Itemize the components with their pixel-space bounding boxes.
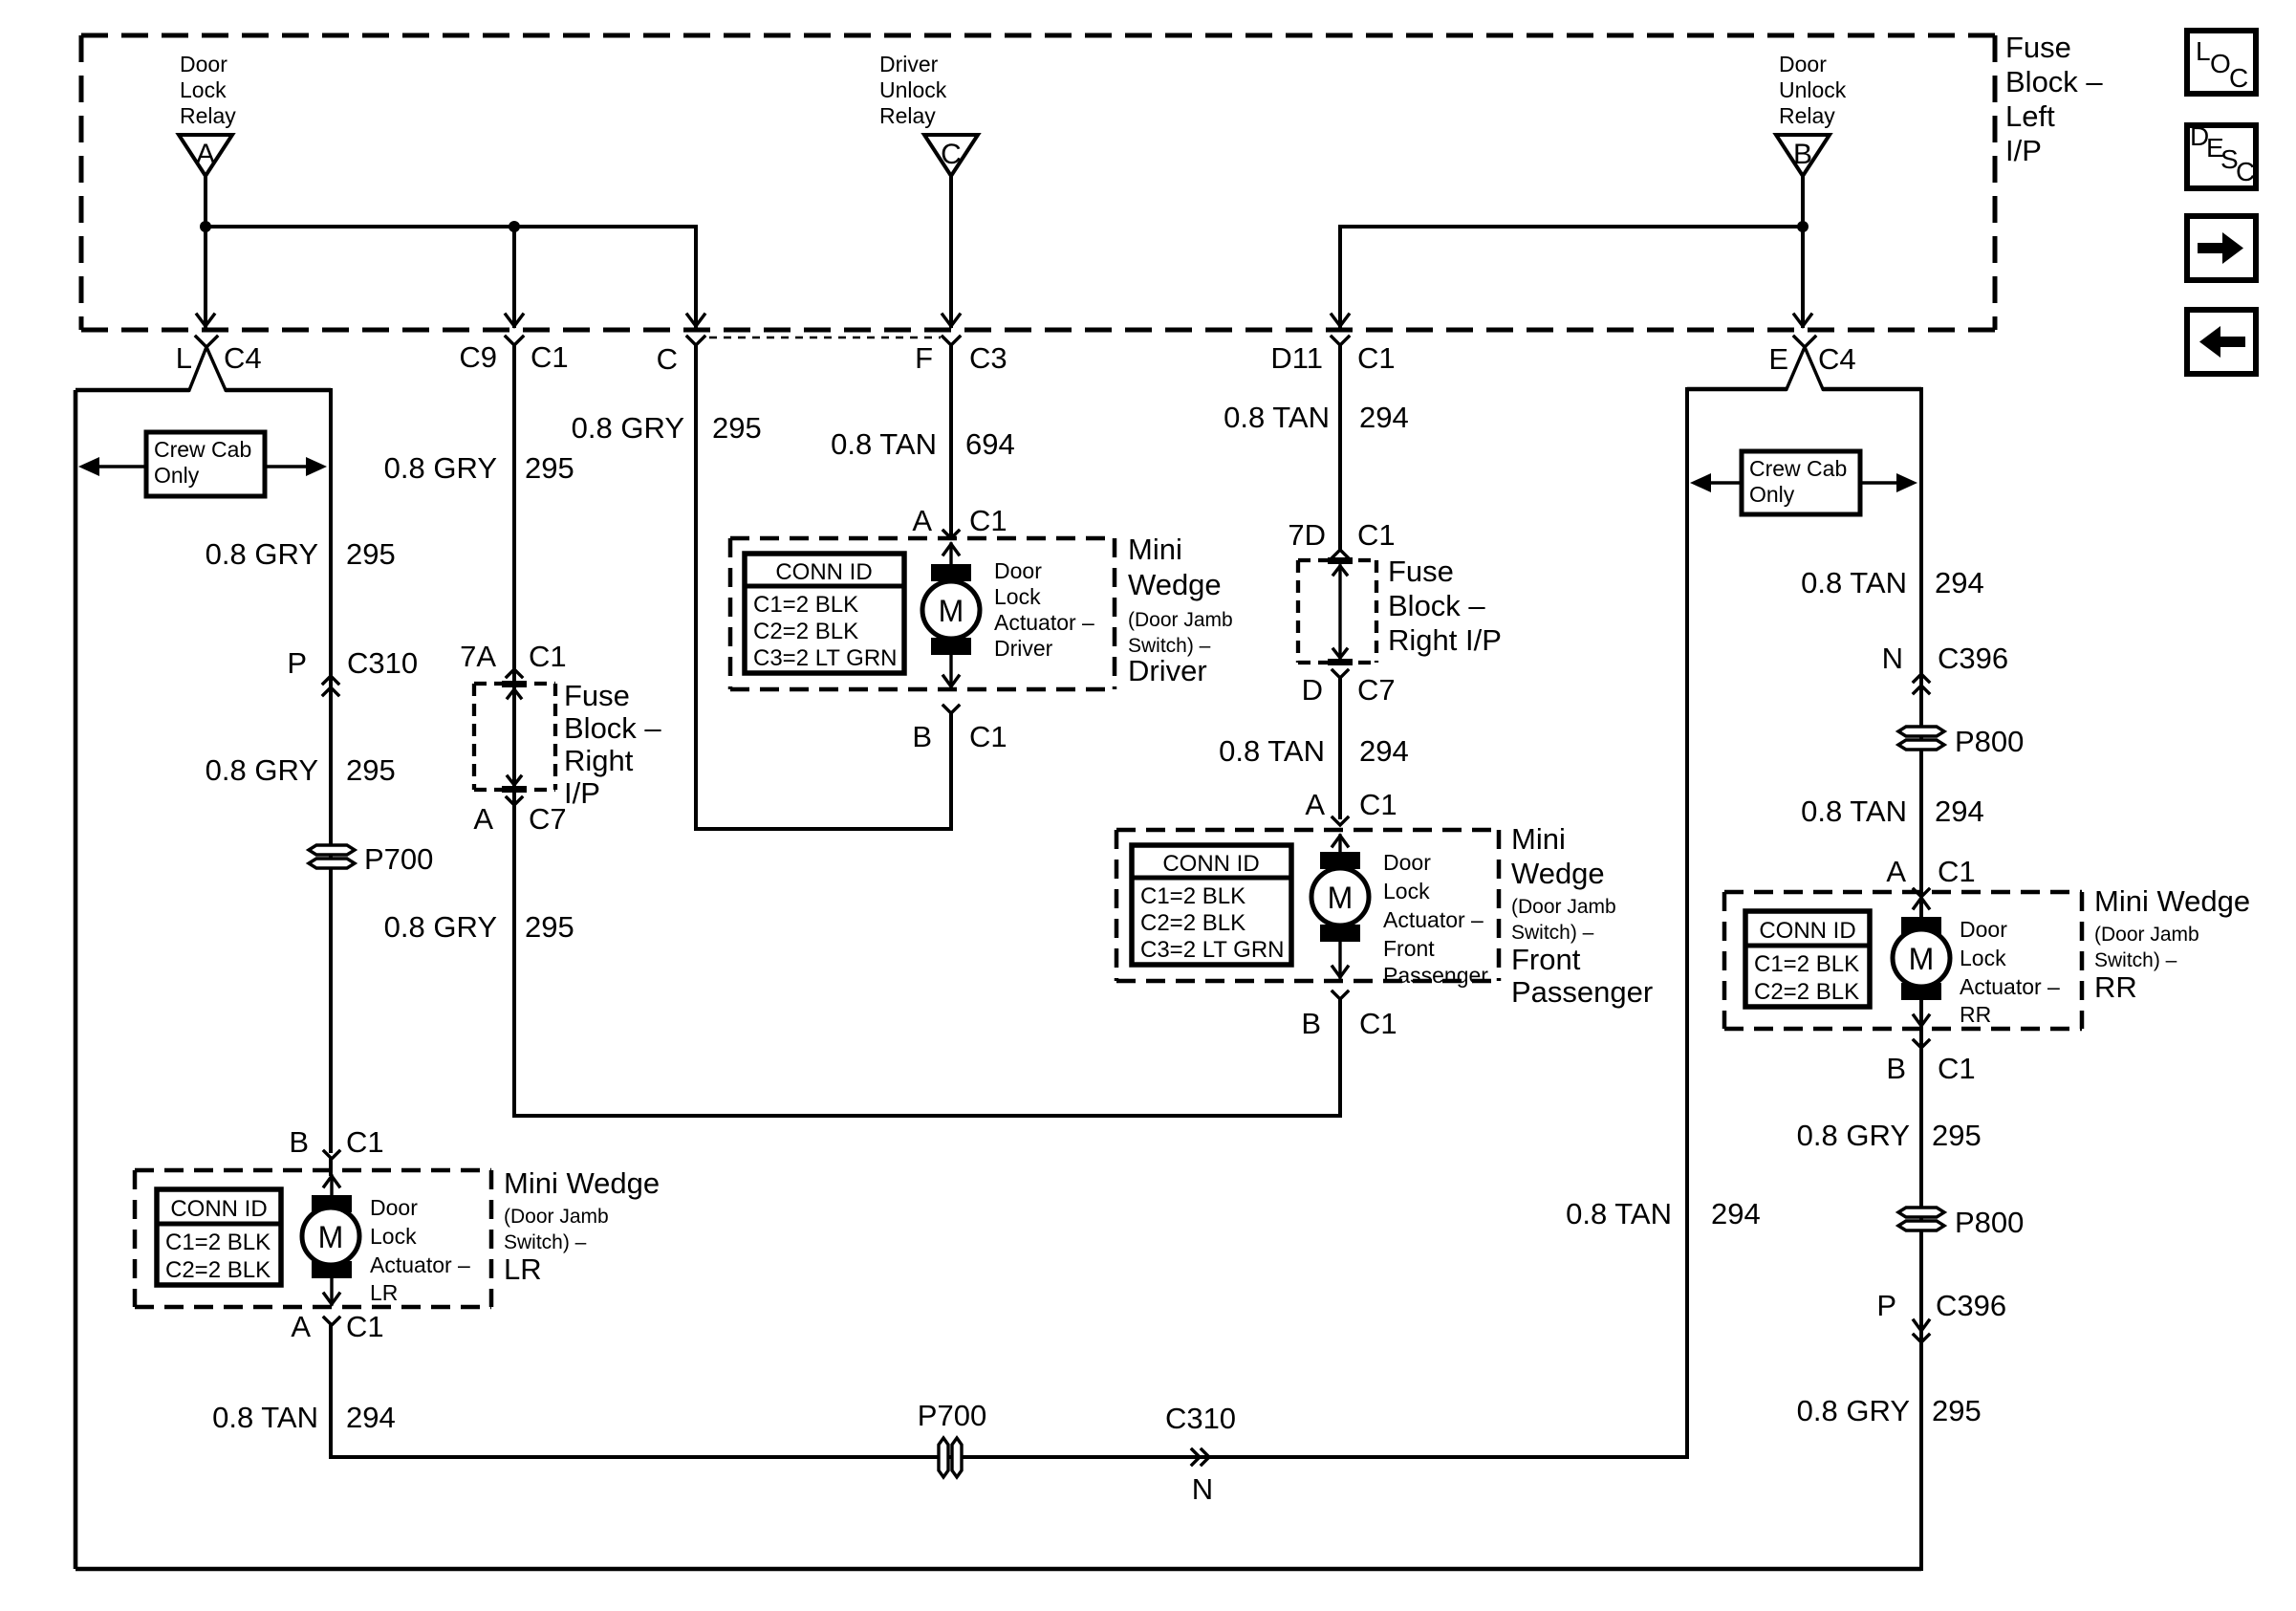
svg-text:A: A <box>196 139 215 170</box>
svg-text:Right I/P: Right I/P <box>1388 623 1502 657</box>
svg-text:LR: LR <box>370 1280 398 1305</box>
svg-text:P700: P700 <box>364 842 433 876</box>
svg-text:Unlock: Unlock <box>879 77 947 102</box>
relay A (door lock relay) triangle <box>179 135 232 176</box>
wire right edge of right loop <box>1919 389 1923 1569</box>
icon box back arrow <box>2187 310 2256 374</box>
svg-text:N: N <box>1882 642 1903 675</box>
svg-text:C1=2 BLK: C1=2 BLK <box>1754 951 1859 977</box>
crew cab arrow left (right box) <box>1690 473 1742 492</box>
wire label 0.8 GRY 295 (C9 branch) <box>384 451 574 485</box>
svg-text:Door: Door <box>180 52 227 76</box>
wire driver feed down <box>949 345 953 535</box>
svg-text:Front: Front <box>1383 936 1435 961</box>
arrowhead at F <box>942 315 960 326</box>
wire label 0.8 TAN 294 (LR return) <box>1566 1197 1761 1230</box>
svg-text:(Door Jamb: (Door Jamb <box>1128 609 1233 631</box>
svg-text:CONN ID: CONN ID <box>1162 851 1259 877</box>
crew cab only box (right) <box>1742 451 1860 514</box>
fuse terminal bar top <box>1328 557 1353 564</box>
fuse feed arrow up <box>508 689 521 698</box>
svg-text:I/P: I/P <box>2005 134 2042 167</box>
svg-text:C3=2 LT GRN: C3=2 LT GRN <box>753 645 898 671</box>
wire C drop <box>694 227 698 326</box>
label Door Lock Actuator - Front Passenger <box>1383 850 1488 988</box>
svg-text:Unlock: Unlock <box>1779 77 1847 102</box>
relay C (driver unlock relay) triangle <box>924 135 978 176</box>
svg-text:0.8 GRY: 0.8 GRY <box>206 753 318 787</box>
icon box LOC <box>2187 31 2256 94</box>
wire <box>1823 387 1921 392</box>
wire label 0.8 TAN 294 (RR mid) <box>1801 795 1984 828</box>
svg-text:L: L <box>2196 36 2211 66</box>
CONN ID table LR <box>157 1189 281 1285</box>
svg-text:0.8 TAN: 0.8 TAN <box>1224 401 1330 434</box>
wire label 0.8 GRY 295 (RR lower) <box>1797 1119 1982 1152</box>
wire label 0.8 TAN 694 <box>831 427 1015 461</box>
svg-text:Mini: Mini <box>1511 822 1566 856</box>
svg-text:B: B <box>289 1125 309 1159</box>
svg-text:Lock: Lock <box>1383 879 1430 903</box>
svg-text:Crew Cab: Crew Cab <box>154 437 251 462</box>
wire: horizontal bus A to C-drop <box>206 225 696 229</box>
wire label 0.8 TAN 294 (RR top) <box>1801 566 1984 599</box>
wire: horizontal bus B to D11-drop <box>1340 225 1803 229</box>
motor arrow up (LR) <box>324 1176 339 1197</box>
connector A/C1 (front passenger) <box>1305 788 1397 825</box>
right crew-cab loop box top edge <box>1687 387 1787 392</box>
icon box forward arrow <box>2187 216 2256 280</box>
svg-text:(Door Jamb: (Door Jamb <box>1511 896 1616 918</box>
wire LR A down <box>329 1325 333 1457</box>
svg-text:C396: C396 <box>1938 642 2008 675</box>
svg-text:Relay: Relay <box>879 103 936 128</box>
svg-text:Relay: Relay <box>1779 103 1835 128</box>
svg-text:294: 294 <box>1935 566 1984 599</box>
wire label 0.8 GRY 295 <box>206 753 396 787</box>
svg-text:295: 295 <box>1932 1394 1982 1427</box>
connector A/C1 (RR) <box>1886 855 1975 897</box>
arrowhead at L <box>197 315 214 326</box>
svg-text:Only: Only <box>154 463 200 488</box>
splice P800 (lower) <box>1898 1206 2024 1239</box>
svg-text:0.8 TAN: 0.8 TAN <box>1801 566 1907 599</box>
crew cab arrow right (right box) <box>1860 473 1917 492</box>
wire label 0.8 GRY 295 <box>206 537 396 571</box>
fuse feed arrow down <box>1333 649 1347 658</box>
svg-text:C1: C1 <box>1938 855 1976 888</box>
svg-text:7A: 7A <box>460 640 496 673</box>
svg-text:P800: P800 <box>1955 1206 2024 1239</box>
svg-text:Switch) –: Switch) – <box>1511 922 1594 944</box>
svg-text:294: 294 <box>1359 401 1409 434</box>
label Fuse Block - Left I/P <box>2005 31 2103 167</box>
svg-text:295: 295 <box>525 451 574 485</box>
svg-text:0.8 TAN: 0.8 TAN <box>831 427 937 461</box>
connector B/C1 (LR) <box>289 1125 383 1159</box>
svg-text:Fuse: Fuse <box>2005 31 2071 64</box>
connector A/C1 (LR) <box>291 1310 383 1343</box>
arrowhead at C <box>687 315 704 326</box>
svg-text:I/P: I/P <box>564 776 600 810</box>
fuse block - left I/P dashed outline <box>81 35 1995 330</box>
svg-text:CONN ID: CONN ID <box>170 1196 267 1222</box>
svg-text:0.8 TAN: 0.8 TAN <box>212 1401 318 1434</box>
svg-text:Block –: Block – <box>564 711 661 745</box>
connector A/C7 <box>473 797 566 836</box>
svg-text:Passenger: Passenger <box>1383 963 1488 988</box>
svg-text:C4: C4 <box>1818 342 1856 376</box>
svg-text:C3=2 LT GRN: C3=2 LT GRN <box>1140 937 1285 963</box>
svg-text:C2=2 BLK: C2=2 BLK <box>1754 979 1859 1005</box>
svg-text:C396: C396 <box>1936 1289 2006 1322</box>
connector C310/N <box>1165 1402 1236 1506</box>
connector A/C1 (driver) <box>912 504 1007 538</box>
svg-text:0.8 TAN: 0.8 TAN <box>1219 734 1325 768</box>
wire label 0.8 TAN 294 (upper passenger) <box>1224 401 1409 434</box>
wire passenger mid <box>1338 678 1342 817</box>
svg-text:295: 295 <box>712 411 762 445</box>
mini wedge RR dashed box <box>1724 892 2082 1029</box>
wire D11 drop <box>1338 227 1342 326</box>
svg-text:A: A <box>1305 788 1325 821</box>
label Fuse Block - Right I/P <box>564 679 661 810</box>
connector 7D/C1 <box>1288 518 1395 557</box>
svg-text:Switch) –: Switch) – <box>2094 949 2177 971</box>
label Mini Wedge (Door Jamb Switch) - Front Passenger <box>1511 822 1653 1009</box>
svg-text:C1=2 BLK: C1=2 BLK <box>753 592 858 618</box>
svg-text:Fuse: Fuse <box>1388 555 1454 588</box>
svg-text:C9: C9 <box>459 340 497 374</box>
svg-text:294: 294 <box>1711 1197 1761 1230</box>
svg-text:C: C <box>2236 157 2255 186</box>
svg-text:B: B <box>912 720 932 753</box>
svg-text:294: 294 <box>346 1401 396 1434</box>
svg-text:Fuse: Fuse <box>564 679 630 712</box>
svg-text:F: F <box>915 341 933 375</box>
connector D11/C1 <box>1270 337 1395 375</box>
svg-text:C7: C7 <box>529 802 567 836</box>
connector N/C396 <box>1882 642 2009 693</box>
svg-text:C7: C7 <box>1357 673 1396 707</box>
wire relay B down <box>1801 176 1805 326</box>
icon box DESC <box>2187 121 2256 188</box>
fuse feed arrow down <box>508 776 521 785</box>
door lock actuator LR motor <box>302 1195 359 1278</box>
svg-text:A: A <box>291 1310 311 1343</box>
svg-text:C3: C3 <box>969 341 1007 375</box>
svg-text:RR: RR <box>2094 970 2137 1004</box>
CONN ID table driver <box>745 554 904 673</box>
svg-text:C1: C1 <box>1359 1007 1397 1040</box>
relay B (door unlock relay) triangle <box>1776 135 1830 176</box>
connector 7A/C1 <box>460 640 567 677</box>
label Door Lock Actuator - RR <box>1960 917 2060 1027</box>
svg-text:RR: RR <box>1960 1002 1991 1027</box>
svg-text:694: 694 <box>965 427 1015 461</box>
label Mini Wedge (Door Jamb Switch) - Driver <box>1128 533 1233 687</box>
svg-text:295: 295 <box>346 753 396 787</box>
wire label 0.8 GRY 295 (lower C9) <box>384 910 574 944</box>
svg-text:O: O <box>2210 49 2231 78</box>
svg-text:Actuator –: Actuator – <box>994 610 1094 635</box>
svg-text:295: 295 <box>346 537 396 571</box>
svg-text:0.8 TAN: 0.8 TAN <box>1566 1197 1672 1230</box>
motor arrow down (FP) <box>1332 942 1348 977</box>
svg-text:C1: C1 <box>1357 518 1396 552</box>
bottom crew-cab return wire <box>76 1567 1921 1572</box>
svg-text:(Door Jamb: (Door Jamb <box>504 1206 609 1228</box>
wire <box>694 345 698 829</box>
connector L/C4 X-symbol <box>176 337 262 390</box>
wire label 0.8 GRY 295 (C branch) <box>572 411 762 445</box>
svg-text:M: M <box>939 594 964 628</box>
svg-text:Door: Door <box>1960 917 2007 942</box>
crew cab only box (left) <box>146 432 265 496</box>
svg-text:Switch) –: Switch) – <box>504 1231 587 1253</box>
svg-text:(Door Jamb: (Door Jamb <box>2094 924 2199 946</box>
svg-text:0.8 GRY: 0.8 GRY <box>1797 1394 1910 1427</box>
motor arrow up (driver) <box>943 544 959 566</box>
svg-text:C1=2 BLK: C1=2 BLK <box>165 1230 271 1255</box>
relay C label: Driver Unlock Relay <box>879 52 947 128</box>
wire right edge of loop down to LR branch <box>329 390 333 1151</box>
crew cab arrow left <box>78 457 146 476</box>
svg-text:D: D <box>1302 673 1323 707</box>
svg-text:0.8 GRY: 0.8 GRY <box>206 537 318 571</box>
svg-text:Mini: Mini <box>1128 533 1182 566</box>
svg-text:295: 295 <box>525 910 574 944</box>
svg-text:Driver: Driver <box>994 636 1053 661</box>
crew cab arrow right <box>265 457 327 476</box>
wire LR return horizontal run <box>331 1455 1687 1459</box>
svg-text:Block –: Block – <box>2005 65 2103 98</box>
svg-text:C1: C1 <box>531 340 569 374</box>
svg-text:Mini Wedge: Mini Wedge <box>2094 884 2250 918</box>
wire driver return <box>949 713 953 829</box>
svg-text:C2=2 BLK: C2=2 BLK <box>165 1257 271 1283</box>
svg-text:B: B <box>1301 1007 1321 1040</box>
connector D/C7 <box>1302 670 1396 707</box>
svg-text:P: P <box>287 646 307 680</box>
svg-text:Left: Left <box>2005 99 2055 133</box>
junction dot C9 <box>509 221 520 232</box>
fuse block right I/P dashed box (passenger) <box>1298 560 1376 663</box>
svg-text:N: N <box>1192 1472 1213 1506</box>
svg-text:Door: Door <box>1779 52 1827 76</box>
motor arrow down (LR) <box>324 1278 339 1304</box>
svg-text:0.8 GRY: 0.8 GRY <box>1797 1119 1910 1152</box>
svg-text:Only: Only <box>1749 482 1795 507</box>
svg-text:A: A <box>912 504 932 537</box>
connector C9/C1 <box>459 337 568 374</box>
wire label 0.8 TAN 294 (mid passenger) <box>1219 734 1409 768</box>
svg-text:Block –: Block – <box>1388 589 1485 622</box>
dotted harness line C to F <box>709 337 941 339</box>
svg-text:0.8 GRY: 0.8 GRY <box>384 910 497 944</box>
svg-text:M: M <box>1909 942 1935 976</box>
svg-text:C1: C1 <box>1357 341 1396 375</box>
mini wedge LR dashed box <box>135 1170 491 1307</box>
wire through fuse <box>1338 566 1341 658</box>
svg-text:L: L <box>176 341 192 375</box>
svg-text:C2=2 BLK: C2=2 BLK <box>753 619 858 644</box>
connector P/C396 <box>1876 1289 2006 1342</box>
svg-text:Wedge: Wedge <box>1128 568 1222 601</box>
connector P/C310 <box>287 646 418 695</box>
mini wedge driver dashed box <box>730 538 1115 689</box>
svg-text:E: E <box>1768 342 1788 376</box>
wire FP return down <box>1338 999 1342 1116</box>
svg-text:295: 295 <box>1932 1119 1982 1152</box>
svg-text:Passenger: Passenger <box>1511 975 1653 1009</box>
svg-text:Actuator –: Actuator – <box>1960 974 2060 999</box>
splice P800 (upper) <box>1898 725 2024 758</box>
svg-text:D11: D11 <box>1270 341 1323 375</box>
svg-text:Door: Door <box>1383 850 1431 875</box>
svg-text:Crew Cab: Crew Cab <box>1749 456 1847 481</box>
junction dot B <box>1797 221 1809 232</box>
mini wedge front passenger dashed box <box>1116 830 1499 981</box>
svg-text:C: C <box>657 342 678 376</box>
wire passenger feed down <box>1338 345 1342 549</box>
svg-text:C4: C4 <box>224 341 262 375</box>
connector F/C3 <box>915 337 1007 375</box>
motor arrow down (driver) <box>943 655 959 686</box>
svg-text:C: C <box>941 139 962 170</box>
svg-text:Lock: Lock <box>1960 946 2006 970</box>
svg-text:Actuator –: Actuator – <box>1383 907 1484 932</box>
svg-text:Door: Door <box>994 558 1042 583</box>
svg-text:Front: Front <box>1511 943 1581 976</box>
svg-text:A: A <box>473 802 493 836</box>
svg-text:C310: C310 <box>1165 1402 1236 1435</box>
svg-text:P800: P800 <box>1955 725 2024 758</box>
wire <box>696 827 951 831</box>
svg-text:Relay: Relay <box>180 103 236 128</box>
door lock actuator driver motor <box>922 564 980 655</box>
svg-text:C2=2 BLK: C2=2 BLK <box>1140 910 1245 936</box>
svg-text:P: P <box>1876 1289 1896 1322</box>
svg-text:Lock: Lock <box>994 584 1041 609</box>
svg-text:7D: 7D <box>1288 518 1326 552</box>
splice P700 (floor harness) <box>918 1399 986 1477</box>
svg-text:Lock: Lock <box>180 77 227 102</box>
svg-text:294: 294 <box>1359 734 1409 768</box>
svg-text:M: M <box>1328 881 1354 915</box>
motor arrow up (FP) <box>1332 836 1348 854</box>
svg-text:C1: C1 <box>1359 788 1397 821</box>
arrowhead at E <box>1794 315 1811 326</box>
connector E/C4 X-symbol <box>1768 337 1855 389</box>
splice P700 <box>309 842 433 876</box>
fuse feed arrow up <box>1333 566 1347 575</box>
label Door Lock Actuator - LR <box>370 1195 470 1305</box>
wire C9 branch down <box>512 345 516 1116</box>
svg-text:CONN ID: CONN ID <box>775 559 872 585</box>
svg-text:Actuator –: Actuator – <box>370 1252 470 1277</box>
wire into LR box <box>329 1159 333 1174</box>
svg-text:C310: C310 <box>347 646 418 680</box>
svg-text:C1: C1 <box>969 504 1007 537</box>
svg-text:Right: Right <box>564 744 634 777</box>
svg-text:C1: C1 <box>1938 1052 1976 1085</box>
svg-text:0.8 GRY: 0.8 GRY <box>384 451 497 485</box>
door lock actuator front passenger motor <box>1311 852 1369 942</box>
junction dot A <box>200 221 211 232</box>
wire left edge of right loop <box>1685 389 1689 1457</box>
svg-text:0.8 GRY: 0.8 GRY <box>572 411 684 445</box>
svg-text:CONN ID: CONN ID <box>1759 918 1855 944</box>
svg-text:M: M <box>318 1220 344 1254</box>
svg-text:Lock: Lock <box>370 1224 417 1249</box>
wire left edge of crew-cab loop <box>74 390 78 1569</box>
wire label 0.8 TAN 294 <box>212 1401 396 1434</box>
relay B label: Door Unlock Relay <box>1779 52 1847 128</box>
svg-text:A: A <box>1886 855 1906 888</box>
arrowhead at D11 <box>1332 315 1349 326</box>
svg-text:B: B <box>1793 139 1812 170</box>
CONN ID table front passenger <box>1132 845 1291 965</box>
relay A label: Door Lock Relay <box>180 52 236 128</box>
svg-text:P700: P700 <box>918 1399 986 1432</box>
motor arrow up (RR) <box>1914 898 1929 919</box>
fuse terminal bar bottom <box>1328 659 1353 665</box>
fuse block right I/P dashed box (C9 branch) <box>474 684 555 790</box>
wire relay C down <box>949 176 953 326</box>
CONN ID table RR <box>1745 911 1870 1007</box>
svg-text:C1=2 BLK: C1=2 BLK <box>1140 883 1245 909</box>
svg-text:B: B <box>1886 1052 1906 1085</box>
svg-text:C1: C1 <box>346 1310 384 1343</box>
svg-text:C1: C1 <box>969 720 1007 753</box>
wire relay A down to junction <box>204 176 207 326</box>
svg-text:294: 294 <box>1935 795 1984 828</box>
fuse terminal bar top <box>502 681 527 687</box>
label Door Lock Actuator - Driver <box>994 558 1094 661</box>
svg-text:0.8 TAN: 0.8 TAN <box>1801 795 1907 828</box>
connector B/C1 (RR) <box>1886 1040 1975 1085</box>
label Mini Wedge (Door Jamb Switch) - LR <box>504 1166 660 1286</box>
svg-text:Driver: Driver <box>879 52 939 76</box>
left crew-cab loop box top edge <box>76 388 189 393</box>
svg-text:Driver: Driver <box>1128 654 1207 687</box>
svg-text:C: C <box>2229 63 2248 93</box>
arrowhead at C9 <box>506 315 523 326</box>
wire C9 return to FP actuator <box>514 1114 1340 1118</box>
motor arrow down (RR) <box>1914 1000 1929 1026</box>
wire <box>226 388 331 393</box>
svg-text:LR: LR <box>504 1252 542 1286</box>
connector C <box>657 337 704 376</box>
label Fuse Block - Right I/P (passenger) <box>1388 555 1502 657</box>
fuse terminal bar bottom <box>502 786 527 793</box>
wire C9 drop <box>512 227 516 326</box>
connector B/C1 (front passenger) <box>1301 991 1397 1040</box>
svg-text:Wedge: Wedge <box>1511 857 1605 890</box>
door lock actuator RR motor <box>1893 917 1950 1000</box>
svg-text:Mini Wedge: Mini Wedge <box>504 1166 660 1200</box>
svg-text:C1: C1 <box>529 640 567 673</box>
wire label 0.8 GRY 295 (bottom right) <box>1797 1394 1982 1427</box>
svg-text:C1: C1 <box>346 1125 384 1159</box>
label Mini Wedge (Door Jamb Switch) - RR <box>2094 884 2250 1004</box>
connector B/C1 (driver) <box>912 706 1007 753</box>
svg-text:Door: Door <box>370 1195 418 1220</box>
